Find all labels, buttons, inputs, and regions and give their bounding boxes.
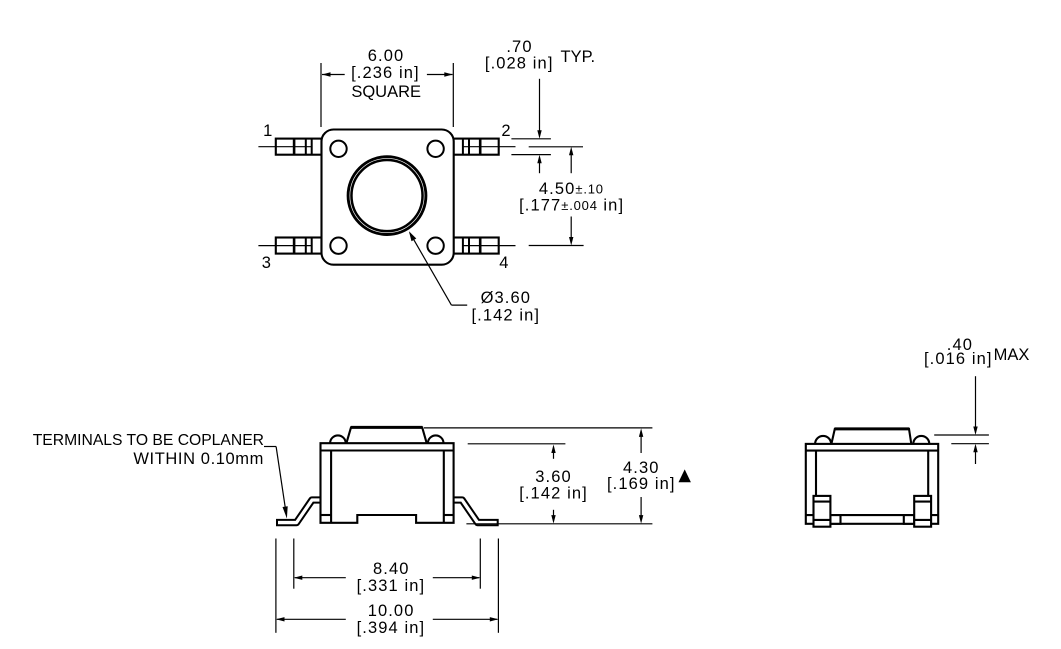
- svg-text:4.50±.10: 4.50±.10: [539, 180, 604, 198]
- svg-text:[.331 in]: [.331 in]: [357, 577, 426, 595]
- svg-text:4: 4: [499, 254, 508, 272]
- svg-text:MAX: MAX: [994, 346, 1030, 364]
- svg-text:[.394 in]: [.394 in]: [357, 619, 426, 637]
- svg-text:[.142 in]: [.142 in]: [471, 307, 540, 325]
- svg-text:[.016 in]: [.016 in]: [924, 350, 993, 368]
- svg-text:TYP.: TYP.: [561, 48, 596, 66]
- svg-text:Ø3.60: Ø3.60: [481, 289, 531, 307]
- svg-text:10.00: 10.00: [368, 602, 415, 620]
- svg-text:2: 2: [501, 122, 510, 140]
- svg-text:[.169 in]: [.169 in]: [607, 475, 676, 493]
- svg-text:[.177±.004 in]: [.177±.004 in]: [519, 196, 624, 214]
- svg-text:WITHIN 0.10mm: WITHIN 0.10mm: [133, 450, 264, 468]
- svg-text:3: 3: [262, 254, 271, 272]
- svg-text:6.00: 6.00: [368, 47, 405, 65]
- svg-text:3.60: 3.60: [535, 468, 572, 486]
- svg-text:8.40: 8.40: [373, 560, 410, 578]
- svg-text:[.028 in]: [.028 in]: [485, 54, 554, 72]
- svg-text:TERMINALS TO BE COPLANER: TERMINALS TO BE COPLANER: [33, 432, 264, 449]
- svg-text:.70: .70: [506, 38, 532, 56]
- svg-text:1: 1: [263, 122, 272, 140]
- svg-text:[.236 in]: [.236 in]: [351, 64, 420, 82]
- svg-text:[.142 in]: [.142 in]: [519, 485, 588, 503]
- svg-text:SQUARE: SQUARE: [351, 83, 421, 101]
